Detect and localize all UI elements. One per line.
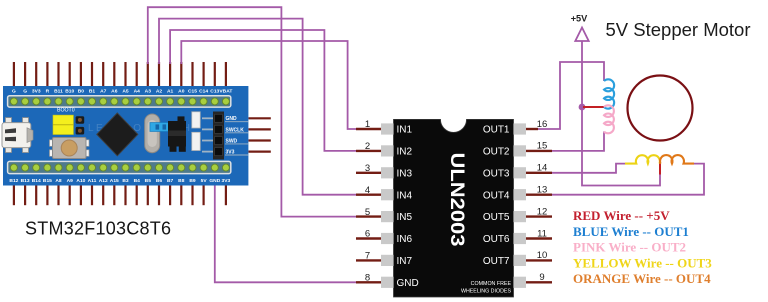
svg-text:GND: GND [209,178,220,184]
svg-text:OUT7: OUT7 [483,256,510,267]
svg-text:B14: B14 [32,178,41,184]
svg-text:A0: A0 [178,89,185,95]
svg-text:IN7: IN7 [397,256,413,267]
svg-text:10: 10 [537,250,548,261]
svg-text:B4: B4 [134,178,141,184]
svg-text:WHEELING DIODES: WHEELING DIODES [461,289,512,295]
svg-text:B15: B15 [43,178,52,184]
svg-text:B10: B10 [65,89,74,95]
SWD debug header J2 [202,112,224,160]
+5V rail wire [582,40,660,186]
svg-text:A8: A8 [55,178,62,184]
wire OUT3 (pin14) to yellow coil [552,164,627,173]
top pin labels row [12,89,232,95]
svg-text:RED Wire -- +5V: RED Wire -- +5V [573,208,670,223]
red center-tap segment at yellow/orange junction [659,159,661,175]
svg-text:ULN2003: ULN2003 [446,153,468,247]
svg-text:COMMON FREE: COMMON FREE [471,281,512,287]
svg-text:B11: B11 [54,89,63,95]
svg-text:G: G [12,89,16,95]
svg-text:ORANGE Wire -- OUT4: ORANGE Wire -- OUT4 [573,271,711,286]
svg-text:A11: A11 [88,178,97,184]
blue jumper/component [150,123,171,132]
right pin numbers 16-9 [537,119,548,283]
svg-text:IN3: IN3 [397,168,413,179]
svg-text:A3: A3 [145,89,152,95]
svg-text:B3: B3 [122,178,129,184]
IC pin pads right (pins 16-9) [514,123,527,288]
svg-text:B7: B7 [167,178,174,184]
wire GND to pin 8 [215,186,356,283]
stepper motor body [628,76,693,141]
svg-text:A10: A10 [76,178,85,184]
voltage regulator Q1 [168,116,186,151]
svg-text:OUT2: OUT2 [483,147,510,158]
svg-text:YELLOW Wire -- OUT3: YELLOW Wire -- OUT3 [573,255,712,270]
svg-text:C13: C13 [210,89,219,95]
svg-text:3V3: 3V3 [222,178,231,184]
resistor pack R2 [192,132,200,150]
svg-text:A1: A1 [167,89,174,95]
svg-text:14: 14 [537,163,548,174]
svg-text:B13: B13 [21,178,30,184]
svg-text:A7: A7 [100,89,107,95]
svg-text:IN4: IN4 [397,190,413,201]
svg-text:B8: B8 [178,178,185,184]
svg-text:6: 6 [365,229,370,240]
wire A1 to IN2 [170,30,356,151]
wire A3 to IN5 [148,7,356,216]
svg-text:OUT6: OUT6 [483,234,510,245]
svg-text:2: 2 [365,141,370,152]
common free wheeling diodes note [461,281,512,295]
svg-text:7: 7 [365,251,370,262]
svg-text:A4: A4 [134,89,141,95]
SWD header labels [225,116,248,155]
svg-text:5V Stepper Motor: 5V Stepper Motor [606,19,751,40]
svg-text:C15: C15 [188,89,197,95]
reset button SW1 [50,138,90,159]
motor winding: orange coil (OUT4) [660,155,694,164]
IC output labels OUT1-OUT7 [483,125,510,267]
svg-text:A6: A6 [111,89,118,95]
svg-text:8: 8 [365,273,370,284]
svg-text:BOOT0: BOOT0 [57,108,75,114]
svg-text:OUT1: OUT1 [483,125,510,136]
svg-text:C14: C14 [199,89,208,95]
svg-text:B12: B12 [9,178,18,184]
svg-text:IN5: IN5 [397,212,413,223]
svg-text:A15: A15 [110,178,119,184]
svg-text:B5: B5 [145,178,152,184]
svg-text:IN2: IN2 [397,147,413,158]
svg-text:B9: B9 [189,178,196,184]
wire OUT4 (pin13) to orange coil [552,164,704,195]
IC right pin leads 16-9 [526,129,552,282]
svg-text:OUT3: OUT3 [483,168,510,179]
svg-text:B0: B0 [78,89,85,95]
svg-text:B1: B1 [89,89,96,95]
svg-text:3V3: 3V3 [32,89,41,95]
svg-text:A9: A9 [67,178,74,184]
svg-text:VBAT: VBAT [219,89,232,95]
svg-text:G: G [23,89,27,95]
left pin numbers 1-8 [365,119,370,283]
svg-text:15: 15 [537,141,548,152]
svg-text:1: 1 [365,119,370,130]
svg-text:IN6: IN6 [397,234,413,245]
svg-text:A5: A5 [122,89,129,95]
bottom pin header strip with holes [8,161,231,173]
STM32 MCU chip (rotated) [97,113,138,156]
svg-text:3: 3 [365,163,370,174]
IC pin pads left (pins 1-8) [381,123,394,288]
svg-text:4: 4 [365,185,370,196]
svg-text:B6: B6 [156,178,163,184]
bottom pin labels row [9,178,230,184]
svg-text:PINK Wire -- OUT2: PINK Wire -- OUT2 [573,240,686,255]
IC left pin leads 1-8 [356,129,381,282]
resistor pack R1 [192,112,200,128]
wire OUT2 (pin15) to pink coil [552,132,604,151]
motor winding: pink coil (OUT2) [604,105,614,133]
svg-text:BLUE Wire -- OUT1: BLUE Wire -- OUT1 [573,224,689,239]
svg-text:OUT5: OUT5 [483,212,510,223]
crystal Y1 [145,114,160,153]
red center-tap wire to blue/pink junction [583,106,604,108]
svg-text:OUT4: OUT4 [483,190,510,201]
svg-text:13: 13 [537,185,548,196]
node junction dot [579,104,586,111]
+5V supply arrow [575,28,588,42]
svg-text:5V: 5V [201,178,208,184]
ULN2003 IC U1 body [394,119,514,297]
svg-text:STM32F103C8T6: STM32F103C8T6 [25,218,171,238]
micro USB connector J1 [2,118,33,153]
IC input labels IN1-IN7, GND [397,125,419,289]
svg-text:11: 11 [537,228,547,239]
wire A0 to IN1 [181,41,356,129]
top pin header strip with holes [8,96,231,107]
BOOT jumpers (yellow) [53,115,84,134]
bottom header pin leads [14,186,226,206]
svg-text:A12: A12 [99,178,108,184]
wire A2 to IN4 [159,19,356,195]
svg-text:GND: GND [397,278,419,289]
STM32F103C8T6 blue pill board U2 [3,86,248,186]
svg-text:9: 9 [539,272,544,283]
motor winding: blue coil (OUT1) [604,79,614,108]
top header pin leads [14,62,226,86]
SWD header leads [249,118,271,151]
svg-text:+5V: +5V [571,14,588,24]
motor winding: yellow coil (OUT3) [625,155,660,163]
svg-text:R: R [46,89,50,95]
svg-text:A2: A2 [156,89,163,95]
svg-text:IN1: IN1 [397,125,413,136]
wire OUT1 (pin16) to blue coil [538,62,604,129]
svg-text:12: 12 [537,206,548,217]
svg-text:5: 5 [365,207,370,218]
